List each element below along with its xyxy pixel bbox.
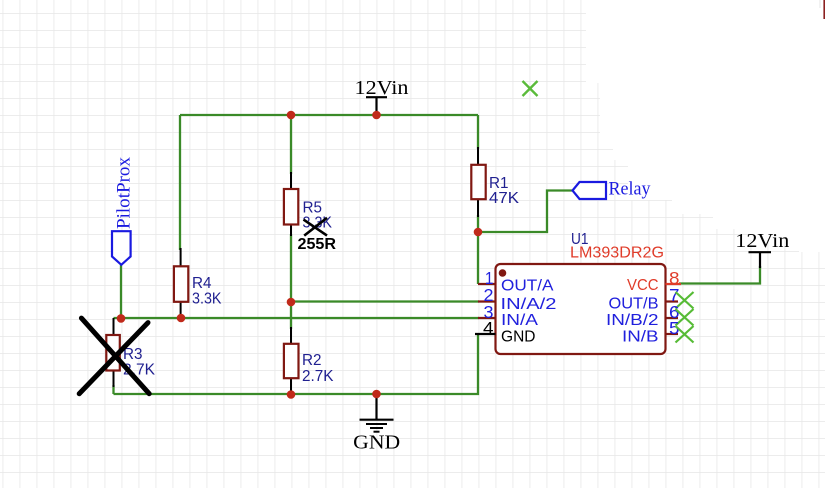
svg-text:Relay: Relay xyxy=(609,179,651,200)
wire: ground rail bottom xyxy=(114,334,479,394)
svg-text:12Vin: 12Vin xyxy=(735,230,789,252)
pin 8 VCC xyxy=(627,268,681,294)
wire: top 12V rail xyxy=(180,114,478,116)
junction at R1 bottom / relay xyxy=(474,228,483,237)
wire: relay branch xyxy=(478,191,572,233)
pin 6 IN/B/2 xyxy=(606,302,694,329)
svg-text:4: 4 xyxy=(483,318,494,338)
pin 5 IN/B xyxy=(622,318,694,346)
svg-text:12Vin: 12Vin xyxy=(355,77,409,99)
op-amp U1 LM393DR2G body xyxy=(496,231,666,354)
clipped symbol at top-right edge xyxy=(823,0,825,19)
wire: pin2 to R5/R2 node xyxy=(291,300,479,302)
resistor R3 (crossed out) xyxy=(79,318,155,394)
junction at PilotProx node xyxy=(117,314,126,323)
wire: PilotProx vertical xyxy=(120,265,122,318)
wire: R3 bottom link xyxy=(112,385,114,394)
svg-text:PilotProx: PilotProx xyxy=(114,157,135,229)
wire: R5 branch vertical xyxy=(290,115,292,174)
svg-text:IN/A: IN/A xyxy=(501,312,538,329)
svg-text:GND: GND xyxy=(353,433,400,454)
pin 4 GND xyxy=(475,318,536,346)
pin 2 IN/A/2 xyxy=(478,285,557,313)
svg-text:LM393DR2G: LM393DR2G xyxy=(570,245,664,262)
svg-text:3.3K: 3.3K xyxy=(192,291,222,308)
junction at GND rail xyxy=(372,390,381,399)
no-connect X pin6 xyxy=(676,309,694,326)
wire: left vertical to R4 xyxy=(179,115,181,250)
strikeout X over 3.3K xyxy=(304,220,328,236)
wire: R1 bottom to pin1 xyxy=(477,215,479,284)
svg-text:R4: R4 xyxy=(192,275,212,292)
svg-text:255R: 255R xyxy=(298,236,337,253)
power symbol 12Vin right xyxy=(735,230,789,268)
wire: R5 to R2 vertical xyxy=(290,234,292,329)
wire: pin3 row horizontal xyxy=(114,317,480,319)
svg-text:2.7K: 2.7K xyxy=(302,368,334,385)
resistor R5 xyxy=(284,172,337,253)
junction at R4 bottom node xyxy=(177,314,186,323)
wire: R1 top vertical xyxy=(477,115,479,149)
ground GND xyxy=(353,394,400,454)
global label Relay xyxy=(573,179,651,200)
no-connect X pin7 xyxy=(676,292,694,309)
pin 1 OUT/A xyxy=(478,268,554,295)
power symbol 12Vin top xyxy=(355,77,409,112)
svg-text:47K: 47K xyxy=(489,190,520,207)
delete X over R3 xyxy=(81,318,149,394)
svg-text:OUT/B: OUT/B xyxy=(609,296,659,313)
junction at R5 bottom node xyxy=(287,298,296,307)
svg-text:GND: GND xyxy=(501,329,536,346)
white unrendered region top-right xyxy=(586,0,825,252)
svg-text:IN/B/2: IN/B/2 xyxy=(606,312,659,329)
svg-text:IN/B: IN/B xyxy=(622,329,659,346)
pin 7 OUT/B xyxy=(609,285,694,312)
svg-text:R2: R2 xyxy=(302,352,322,369)
svg-text:OUT/A: OUT/A xyxy=(501,278,554,295)
stray no-connect X top xyxy=(523,81,538,96)
junction at 12Vin top rail xyxy=(372,111,381,120)
svg-text:VCC: VCC xyxy=(627,277,659,294)
no-connect X pin5 xyxy=(676,326,694,343)
wire: VCC to 12Vin right xyxy=(679,266,760,284)
junction at R2 bottom rail xyxy=(287,390,296,399)
svg-text:IN/A/2: IN/A/2 xyxy=(501,296,557,313)
pin 3 IN/A xyxy=(478,302,538,329)
resistor R2 xyxy=(284,327,334,394)
global label PilotProx xyxy=(112,157,135,265)
resistor R4 xyxy=(174,248,222,318)
resistor R1 xyxy=(471,147,519,217)
junction at R5 top rail xyxy=(287,111,296,120)
